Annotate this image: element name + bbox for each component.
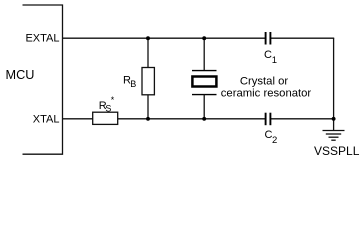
MCU box outline — [23, 5, 63, 154]
wire EXTAL net (MCU pin to C1 left plate) — [63, 37, 266, 39]
capacitor C1 left plate — [265, 32, 267, 45]
MCU label — [6, 68, 35, 82]
svg-text:C: C — [264, 49, 272, 61]
svg-text:VSSPLL: VSSPLL — [314, 144, 360, 158]
svg-text:1: 1 — [272, 55, 277, 66]
label RB — [123, 74, 136, 89]
label VSSPLL — [314, 144, 360, 158]
svg-text:ceramic resonator: ceramic resonator — [221, 88, 312, 100]
capacitor C2 right plate — [269, 113, 271, 126]
svg-text:2: 2 — [272, 135, 277, 146]
junction dot EXTAL/RB — [146, 36, 150, 40]
ground symbol VSSPLL — [323, 131, 345, 141]
pin label XTAL — [33, 113, 60, 125]
capacitor C1 right plate — [269, 32, 271, 45]
svg-text:XTAL: XTAL — [33, 113, 60, 125]
crystal Y1 bottom plate — [192, 94, 217, 96]
wire crystal top stub — [203, 38, 205, 70]
pin label EXTAL — [25, 32, 59, 44]
wire RB bottom (RB down to XTAL node) — [147, 95, 149, 119]
svg-text:*: * — [111, 95, 115, 105]
label C2 — [265, 129, 278, 146]
wire RS to C2 left plate — [118, 118, 266, 120]
junction dot XTAL/right vertical — [332, 117, 336, 121]
svg-text:EXTAL: EXTAL — [25, 32, 59, 44]
svg-text:S: S — [105, 104, 111, 114]
wire RB top (EXTAL node down to RB) — [147, 38, 149, 67]
svg-text:B: B — [130, 79, 136, 89]
wire C2 right plate to right vertical — [271, 118, 335, 120]
junction dot XTAL/crystal — [202, 117, 206, 121]
label RS* — [99, 95, 115, 114]
svg-text:MCU: MCU — [6, 68, 35, 82]
wire crystal bottom stub — [203, 95, 205, 119]
annotation: crystal or ceramic resonator — [221, 76, 312, 100]
label C1 — [264, 49, 277, 66]
junction dot EXTAL/crystal — [202, 36, 206, 40]
crystal Y1 top plate — [192, 70, 217, 72]
wire XTAL net (MCU pin to RS) — [63, 118, 94, 120]
resistor RS (series, in XTAL line) — [93, 112, 118, 124]
svg-text:Crystal or: Crystal or — [240, 76, 289, 88]
crystal Y1 body — [192, 77, 216, 87]
wire right vertical (corner down to ground) — [333, 38, 335, 130]
resistor RB (bias, vertical) — [142, 68, 154, 95]
wire C1 right plate to top-right corner — [271, 37, 335, 39]
junction dot XTAL/RB — [146, 117, 150, 121]
capacitor C2 left plate — [265, 113, 267, 126]
